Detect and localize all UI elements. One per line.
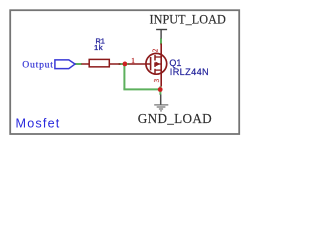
svg-text:GND_LOAD: GND_LOAD xyxy=(138,111,212,126)
svg-text:1: 1 xyxy=(131,56,135,65)
svg-text:Output: Output xyxy=(22,60,53,71)
svg-text:1k: 1k xyxy=(94,43,103,52)
svg-text:3: 3 xyxy=(154,78,161,82)
svg-text:Mosfet: Mosfet xyxy=(16,117,61,131)
svg-text:INPUT_LOAD: INPUT_LOAD xyxy=(150,13,226,27)
svg-text:IRLZ44N: IRLZ44N xyxy=(170,67,209,77)
svg-text:2: 2 xyxy=(153,48,160,52)
